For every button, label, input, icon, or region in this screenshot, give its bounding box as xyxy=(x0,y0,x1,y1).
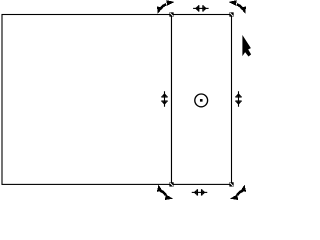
mouse cursor xyxy=(243,36,251,56)
rotation arrow bottom-left xyxy=(160,191,166,195)
stretch arrow bottom xyxy=(192,192,208,193)
selected rectangle (object in rotate mode) xyxy=(172,15,232,185)
stretch arrow top xyxy=(193,8,209,9)
stretch arrow left xyxy=(164,91,165,107)
rotation arrow bottom-right xyxy=(237,191,243,195)
rotation pivot center dot xyxy=(200,99,203,102)
stretch arrow right xyxy=(238,91,239,107)
rotation arrow top-left xyxy=(161,4,167,9)
rotation pivot center circle xyxy=(195,94,208,107)
big rectangle (page frame) xyxy=(2,15,172,185)
corner handle top-right xyxy=(229,12,233,16)
corner handle top-left xyxy=(169,12,173,16)
corner handle bottom-right xyxy=(229,182,233,186)
corner handle bottom-left xyxy=(169,182,173,186)
rotation arrow top-right xyxy=(237,4,243,9)
